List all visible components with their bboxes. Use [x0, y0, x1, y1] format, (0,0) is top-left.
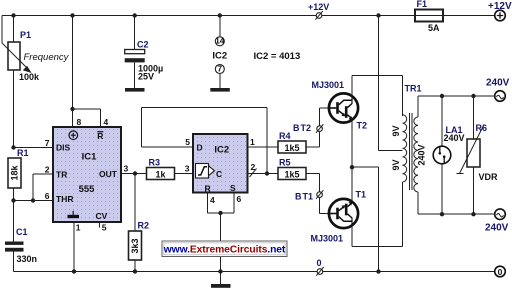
svg-text:6: 6 — [45, 191, 50, 201]
svg-text:R5: R5 — [279, 158, 291, 168]
svg-text:7: 7 — [217, 64, 222, 74]
wire: pin 4 branch — [73, 109, 101, 127]
svg-text:+12V: +12V — [488, 1, 512, 12]
svg-text:C1: C1 — [16, 227, 28, 237]
wire: left drop to P1 wiper — [1, 16, 3, 44]
svg-text:7: 7 — [45, 138, 50, 148]
ground below IC2 supply — [210, 88, 230, 92]
wire: top +12V rail — [2, 15, 495, 17]
wire: OUT to R3 — [121, 173, 147, 175]
svg-text:8: 8 — [77, 117, 82, 127]
svg-text:240V: 240V — [416, 144, 426, 165]
node: junction R/S drop on rail — [218, 269, 222, 273]
svg-text:VDR: VDR — [479, 172, 499, 182]
wire: feedback Q-bar to D — [142, 108, 268, 174]
svg-text:2: 2 — [45, 165, 50, 175]
core — [410, 113, 413, 190]
wire: +12V to transformer centre tap — [379, 16, 403, 151]
svg-text:MJ3001: MJ3001 — [311, 234, 344, 244]
node: junction pin8/pin4 — [70, 107, 74, 111]
node: junction LA1 bottom — [440, 212, 444, 216]
connector BT1 — [295, 174, 329, 214]
terminal 0 bottom right — [495, 266, 506, 277]
IC2 supply pins symbol — [212, 16, 227, 89]
svg-text:S: S — [230, 183, 236, 193]
svg-text:3: 3 — [124, 164, 129, 174]
svg-text:T1: T1 — [356, 190, 367, 200]
varistor R6 VDR — [457, 96, 499, 214]
node: junction R/S — [218, 211, 222, 215]
transistor T2 MJ3001 — [329, 93, 358, 122]
svg-text:CV: CV — [96, 211, 108, 221]
flip-flop IC2 4013 — [193, 134, 248, 194]
wire: IC1 pin 5 open stub — [99, 222, 101, 228]
svg-text:+12V: +12V — [308, 2, 329, 12]
svg-text:0: 0 — [498, 267, 503, 277]
svg-text:1: 1 — [76, 223, 81, 233]
wire: secondary top to output — [418, 96, 495, 117]
node: junction top rail at P1 — [11, 13, 15, 17]
svg-text:THR: THR — [56, 194, 73, 204]
svg-text:5: 5 — [185, 137, 190, 147]
node: junction feedback / pin2 — [265, 171, 269, 175]
svg-text:1k5: 1k5 — [284, 143, 299, 153]
wire: T1 collector to primary bottom — [352, 182, 403, 247]
svg-text:9V: 9V — [391, 125, 401, 136]
node: junction LA1 top — [440, 94, 444, 98]
svg-text:555: 555 — [79, 184, 96, 195]
svg-text:C2: C2 — [137, 40, 149, 50]
node: junction OUT / R2 — [133, 171, 137, 175]
ground at bottom rail — [220, 272, 222, 285]
svg-text:T2: T2 — [357, 121, 368, 131]
node: junction DIS / P1 / R1 — [11, 145, 15, 149]
wire: DIS to junction — [14, 147, 54, 149]
wire: secondary bottom to output — [418, 192, 495, 214]
svg-text:14: 14 — [215, 35, 225, 45]
svg-text:3k3: 3k3 — [130, 238, 140, 253]
terminal 240V bottom — [485, 209, 509, 234]
node: junction pin1 on rail — [72, 269, 76, 273]
resistor R1 — [8, 148, 29, 242]
resistor R4 — [278, 131, 306, 153]
primary winding — [403, 115, 407, 182]
capacitor C2 — [125, 16, 164, 89]
svg-text:R: R — [97, 131, 103, 141]
secondary winding — [414, 117, 418, 192]
wire: T2 emitter down — [351, 121, 353, 168]
svg-text:R1: R1 — [17, 148, 29, 158]
svg-text:Frequency: Frequency — [24, 52, 70, 63]
svg-text:BT1: BT1 — [295, 192, 313, 202]
node: junction emitters — [350, 165, 354, 169]
node: junction TR branch — [31, 198, 35, 202]
node: junction R6 top — [471, 94, 475, 98]
resistor R2 — [129, 174, 150, 272]
svg-text:1k: 1k — [155, 170, 166, 180]
svg-text:BT2: BT2 — [293, 123, 311, 133]
svg-text:5A: 5A — [428, 23, 440, 33]
node: junction R2 on rail — [133, 269, 137, 273]
svg-text:IC1: IC1 — [82, 152, 98, 163]
connector BT2 — [293, 108, 329, 147]
svg-text:IC2: IC2 — [212, 51, 227, 62]
svg-text:4: 4 — [210, 195, 215, 205]
svg-text:5: 5 — [102, 223, 107, 233]
wire: IC1 pin 8 supply drop — [72, 16, 74, 128]
svg-text:DIS: DIS — [56, 143, 71, 153]
wire: bottom 0V rail — [14, 271, 496, 273]
resistor R5 — [278, 158, 306, 180]
node: junction R6 bottom — [471, 212, 475, 216]
wire: emitter junction to 0V rail — [352, 167, 379, 271]
svg-text:240V: 240V — [485, 223, 509, 234]
resistor R3 — [147, 158, 194, 180]
svg-text:R6: R6 — [476, 123, 488, 133]
wire: TR branch — [33, 174, 53, 201]
svg-text:P1: P1 — [20, 30, 31, 40]
svg-text:www.ExtremeCircuits.net: www.ExtremeCircuits.net — [163, 245, 286, 256]
wire: IC2 pin 2 Q-bar to R5 — [248, 173, 279, 175]
svg-text:C: C — [216, 169, 222, 179]
transistor T1 MJ3001 — [329, 199, 358, 228]
svg-text:TR1: TR1 — [405, 84, 422, 94]
svg-text:IC2 = 4013: IC2 = 4013 — [254, 51, 301, 62]
svg-text:R3: R3 — [149, 158, 161, 168]
terminal +12V top right — [488, 1, 512, 21]
svg-text:IC2: IC2 — [214, 145, 229, 156]
wire: T2 collector to primary top — [352, 76, 403, 117]
capacitor C1 — [5, 227, 37, 272]
wire: IC2 R and S pins to 0V — [208, 193, 235, 272]
fuse F1 — [415, 0, 443, 33]
transformer TR1 — [391, 84, 426, 192]
svg-text:1: 1 — [250, 137, 255, 147]
svg-text:330n: 330n — [17, 254, 38, 264]
svg-text:6: 6 — [237, 194, 242, 204]
connector +12V on top rail — [308, 2, 329, 20]
svg-text:9V: 9V — [391, 159, 401, 170]
ground below C2 — [125, 88, 145, 92]
potentiometer P1 — [2, 16, 70, 148]
svg-text:R4: R4 — [279, 131, 291, 141]
IC2 pin 2 inversion slash — [250, 169, 257, 178]
svg-text:100k: 100k — [19, 72, 40, 82]
connector 0 on bottom rail — [316, 258, 323, 276]
lamp LA1 — [433, 96, 464, 214]
svg-text:F1: F1 — [417, 0, 428, 9]
svg-text:R2: R2 — [138, 221, 150, 231]
svg-text:D: D — [197, 143, 203, 153]
node: junction top rail at IC2 supply — [218, 13, 222, 17]
op-amp/timer IC1 555 — [53, 127, 121, 222]
terminal 240V top — [486, 78, 510, 102]
node: junction THR / R1 / C1 — [11, 198, 15, 202]
wire: IC1 pin 1 to 0V — [73, 222, 75, 272]
svg-text:R: R — [205, 184, 211, 194]
node: junction top rail at IC1 pin8 — [70, 13, 74, 17]
svg-text:MJ3001: MJ3001 — [312, 80, 345, 90]
svg-text:25V: 25V — [138, 72, 154, 82]
svg-text:240V: 240V — [444, 133, 465, 143]
node: junction top rail at C2 — [133, 13, 137, 17]
svg-text:TR: TR — [56, 170, 67, 180]
wire: IC2 pin 1 Q to R4 — [248, 146, 279, 148]
svg-text:1k5: 1k5 — [284, 170, 299, 180]
node: junction top rail at transformer feed — [376, 13, 380, 17]
svg-text:3: 3 — [185, 164, 190, 174]
svg-text:18k: 18k — [10, 165, 20, 181]
svg-text:OUT: OUT — [99, 169, 118, 179]
svg-text:4: 4 — [104, 117, 109, 127]
svg-text:0: 0 — [317, 258, 322, 268]
wire: THR feedback — [14, 200, 54, 202]
wire: T1 emitter up — [351, 167, 353, 201]
svg-text:240V: 240V — [486, 78, 510, 89]
watermark box www.ExtremeCircuits.net — [162, 241, 287, 257]
node: junction emitter drop on rail — [376, 269, 380, 273]
